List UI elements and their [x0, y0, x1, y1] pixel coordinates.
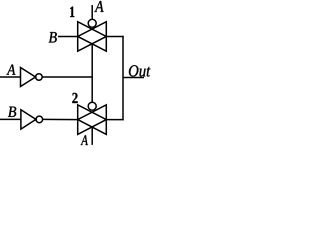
wire: TG1 right to output rail — [106, 35, 124, 37]
transmission gate U2 (two overlapping triangles) — [78, 105, 107, 135]
inverter U3 (A inverter) — [21, 68, 36, 87]
node B (inverter input label, bottom) — [8, 107, 16, 117]
wire: B into TG1 left — [58, 35, 78, 37]
inverter U4 (B inverter) — [21, 110, 36, 129]
wire: control A stub into TG1 bubble — [91, 5, 93, 19]
transmission gate U1 control bubble — [88, 19, 96, 27]
wire: B-bar from inverter to TG2 left — [43, 118, 79, 120]
node A (inverter input label) — [7, 65, 16, 75]
wire: TG2 bottom control stub — [91, 127, 93, 145]
wire: A input to inverter — [0, 76, 21, 78]
wire: TG2 right to output rail — [106, 119, 124, 121]
transmission gate U2 control bubble — [88, 102, 96, 110]
label 1 (gate 1 designator) — [70, 7, 74, 17]
inverter U3 bubble — [36, 74, 43, 81]
wire: Out horizontal — [123, 77, 144, 79]
wire: B input to inverter — [0, 118, 21, 120]
node A (top control label) — [94, 1, 103, 12]
node Out (output label) — [129, 65, 151, 76]
node A (bottom control label) — [81, 135, 88, 145]
inverter U4 bubble — [36, 116, 43, 123]
label 2 (gate 2 designator) — [72, 93, 77, 103]
wire: vertical A-bar between TG1 bottom and TG2 bubble — [91, 44, 93, 102]
wire: A-bar from inverter to junction — [42, 76, 92, 78]
wire: output rail vertical — [122, 36, 124, 121]
node B (input label to TG1) — [49, 32, 57, 42]
transmission gate U1 (two overlapping triangles) — [78, 22, 107, 52]
